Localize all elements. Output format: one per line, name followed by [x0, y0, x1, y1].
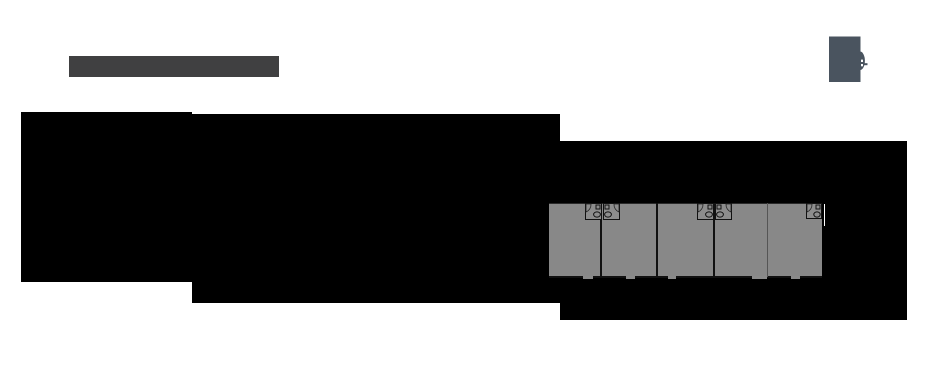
- door gap 3: [668, 276, 676, 279]
- unit wall 3: [713, 203, 715, 277]
- panel top wall: [549, 203, 822, 204]
- toilet pair 1: [585, 203, 620, 221]
- notch lower: [861, 64, 863, 66]
- door gap 1: [583, 276, 593, 279]
- icon seal bump: [860, 52, 865, 71]
- unit wall 2: [656, 203, 658, 277]
- gear tooth: [863, 63, 868, 65]
- document/seal icon top right: [826, 33, 870, 85]
- header placeholder bar: [69, 56, 279, 77]
- measure line right of panel: [824, 204, 825, 226]
- icon body: [829, 37, 861, 83]
- door gap 4: [752, 276, 767, 279]
- photo block B (middle): [192, 114, 560, 303]
- panel bottom wall: [549, 276, 822, 278]
- door gap 2: [626, 276, 635, 279]
- photo block A (left): [21, 112, 192, 282]
- photo block C (right): [560, 141, 907, 320]
- toilet pair 2: [697, 203, 732, 221]
- toilet half (right edge): [806, 203, 822, 221]
- notch upper: [861, 60, 863, 62]
- floor plan panel: [549, 203, 822, 277]
- unit wall 1: [600, 203, 602, 277]
- unit wall 4 (light): [767, 203, 768, 277]
- door gap 5: [791, 276, 800, 279]
